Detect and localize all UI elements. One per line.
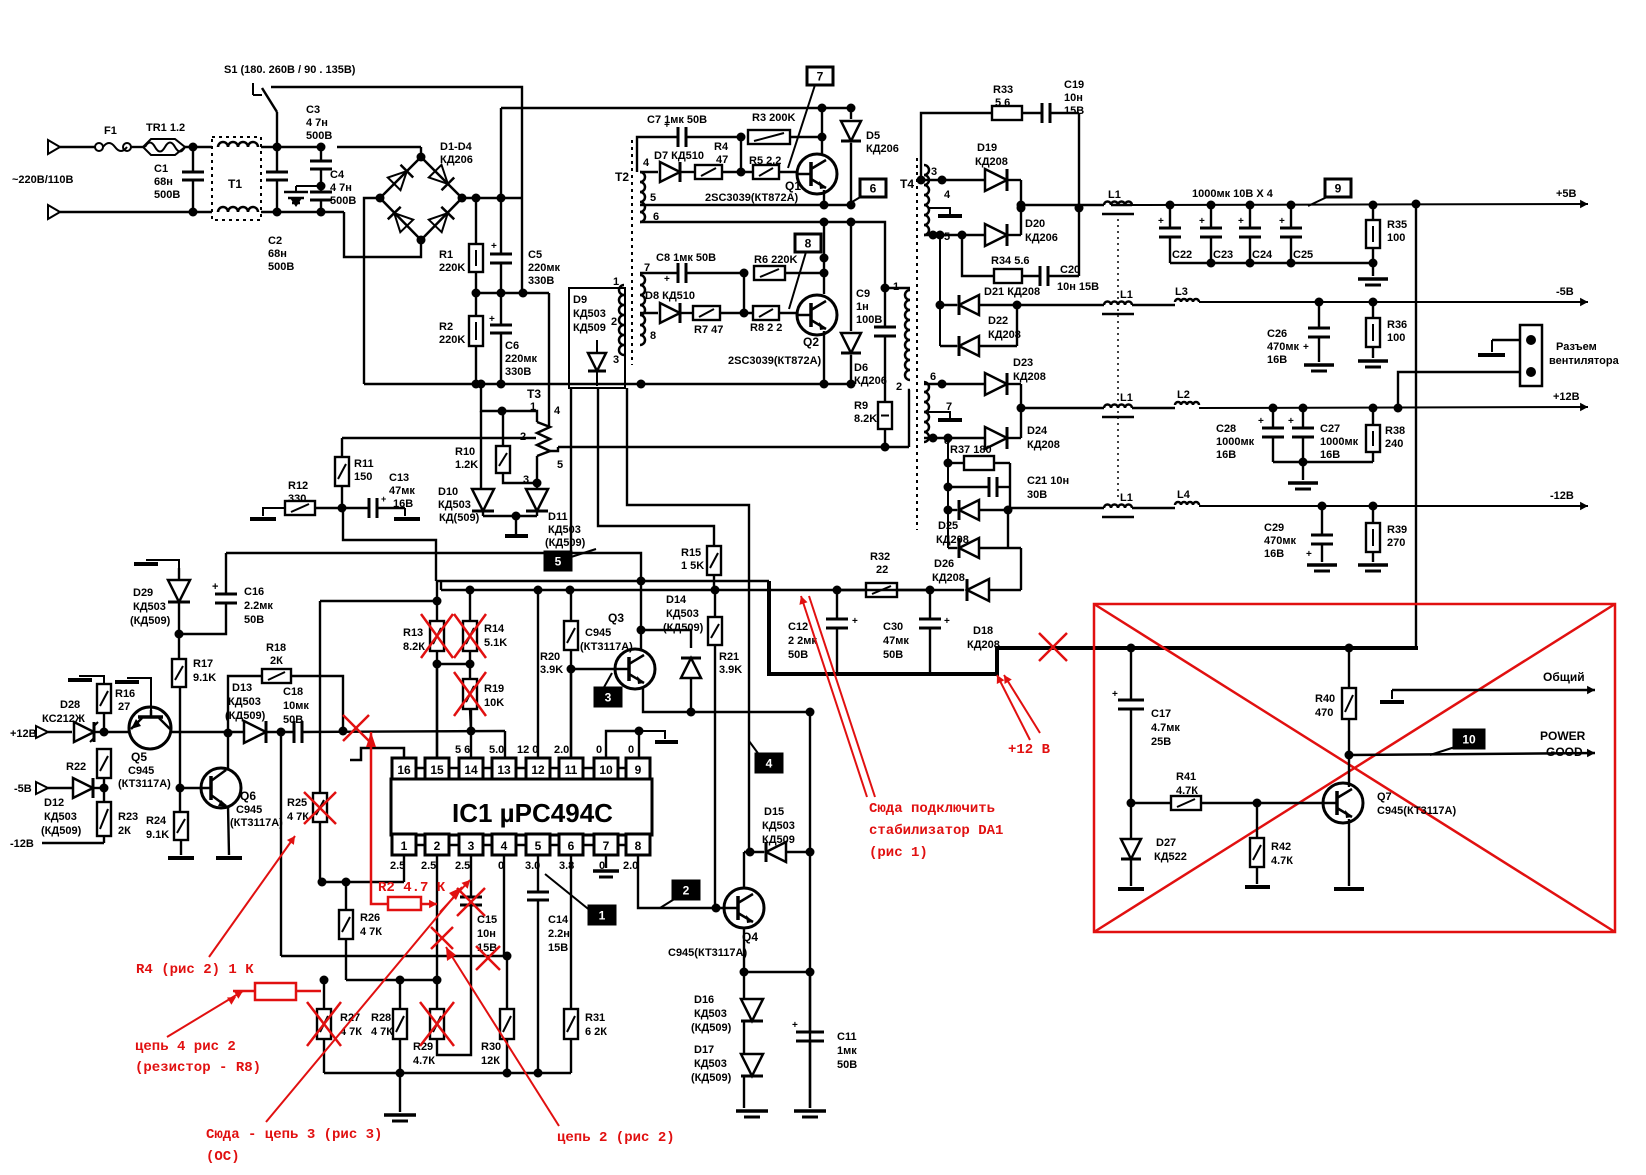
resistor R19 10K (crossed out) (469, 664, 471, 679)
resistor R1 220K (475, 198, 477, 244)
svg-text:Q3: Q3 (608, 611, 624, 625)
svg-text:C945: C945 (585, 627, 611, 639)
wire negative rail (364, 383, 852, 385)
svg-text:(КТ3117А): (КТ3117А) (230, 817, 283, 829)
wire (1199, 301, 1588, 303)
svg-text:9.1K: 9.1K (193, 672, 216, 684)
resistor R41 4.7K (1131, 802, 1171, 804)
svg-text:(КД509): (КД509) (225, 710, 266, 722)
wire T3 pin2 line (342, 437, 536, 439)
svg-text:(КД509): (КД509) (691, 1022, 732, 1034)
wire Q3 emitter rail (643, 687, 810, 712)
svg-text:R9: R9 (854, 400, 868, 412)
transistor Q2 2SC3039(KT872A) (797, 295, 837, 335)
wire callout 10 pointer (1430, 747, 1455, 755)
svg-text:R42: R42 (1271, 841, 1291, 853)
wire bridge right output (462, 197, 522, 199)
svg-text:+12 В: +12 В (1008, 742, 1051, 758)
svg-text:T1: T1 (228, 177, 242, 191)
svg-text:16В: 16В (1320, 449, 1340, 461)
svg-text:8.2K: 8.2K (854, 413, 877, 425)
svg-text:4 7н: 4 7н (330, 182, 352, 194)
ground (1302, 462, 1304, 480)
wire cap common (1170, 262, 1373, 264)
capacitor C21 10n 30V (948, 486, 989, 488)
wire fan pin2 (1398, 372, 1520, 408)
wire Q7 emitter to ground (1348, 819, 1350, 886)
transistor Q4 C945(KT3117A) (724, 888, 764, 928)
wire (740, 137, 742, 172)
junction (740, 309, 749, 318)
svg-text:9.1K: 9.1K (146, 829, 169, 841)
svg-text:R41: R41 (1176, 771, 1196, 783)
junction (820, 380, 829, 389)
svg-text:+: + (489, 314, 495, 325)
wire bridge left to negative rail (364, 198, 380, 384)
wire D10 D11 common (483, 515, 537, 517)
choke L2 (1132, 407, 1175, 409)
junction (806, 848, 815, 857)
svg-text:R40: R40 (1315, 693, 1335, 705)
svg-text:9: 9 (1335, 182, 1342, 196)
svg-text:C23: C23 (1213, 249, 1233, 261)
diode D15 KD503 KD509 (766, 842, 786, 862)
svg-text:D27: D27 (1156, 837, 1176, 849)
svg-text:30В: 30В (1027, 489, 1047, 501)
svg-text:1: 1 (613, 276, 619, 288)
svg-text:D23: D23 (1013, 357, 1033, 369)
svg-text:(КТ3117А): (КТ3117А) (580, 641, 633, 653)
svg-text:КД206: КД206 (440, 154, 473, 166)
svg-text:10: 10 (599, 763, 613, 777)
ground (1245, 885, 1270, 889)
svg-text:5: 5 (535, 839, 542, 853)
wire rect +5 vertical (1020, 180, 1022, 235)
wire pin7 ground (605, 855, 607, 868)
svg-text:КД206: КД206 (854, 375, 887, 387)
svg-text:R23: R23 (118, 811, 138, 823)
wire (131, 146, 145, 148)
junction (818, 104, 827, 113)
svg-text:R28: R28 (371, 1012, 391, 1024)
svg-text:Q5: Q5 (131, 750, 147, 764)
svg-text:C4: C4 (330, 169, 345, 181)
svg-text:Q6: Q6 (240, 789, 256, 803)
transistor Q5 C945 (KT3117A) (129, 707, 171, 749)
resistor R21 3.9K (714, 590, 716, 617)
svg-text:C16: C16 (244, 586, 264, 598)
wire T2 pin6 line (640, 222, 885, 288)
wire D13 line (170, 731, 243, 733)
svg-text:(КД509): (КД509) (663, 622, 704, 634)
step tap (404, 508, 406, 516)
svg-text:КД503: КД503 (666, 608, 699, 620)
resistor R13 8.2K (crossed out) (436, 581, 438, 621)
junction (740, 968, 749, 977)
ground (216, 856, 242, 860)
svg-text:C26: C26 (1267, 328, 1287, 340)
IC1 pin 1 (392, 834, 416, 855)
svg-text:R14: R14 (484, 623, 505, 635)
fuse F1 (95, 143, 103, 151)
svg-text:+: + (1199, 216, 1205, 227)
junction (1075, 204, 1084, 213)
svg-text:вентилятора: вентилятора (1549, 355, 1620, 367)
junction (100, 728, 109, 737)
junction (175, 630, 184, 639)
IC1 pin 10 (594, 758, 618, 779)
svg-text:C27: C27 (1320, 423, 1340, 435)
wire Q4 emitter (743, 929, 745, 972)
ground (1304, 363, 1334, 367)
wire (60, 146, 96, 148)
capacitor C18 10uF 50V (293, 721, 296, 743)
junction (503, 952, 512, 961)
junction (820, 254, 829, 263)
resistor R27 4.7K (crossed out) (323, 980, 325, 1009)
-12V rail (1008, 507, 1104, 509)
svg-text:10н: 10н (1064, 92, 1083, 104)
svg-text:2.2мк: 2.2мк (244, 600, 273, 612)
svg-text:D7 КД510: D7 КД510 (654, 150, 704, 162)
wire D9 to R15 elbow (598, 388, 714, 546)
wire callout 1 pointer (545, 874, 592, 912)
svg-text:L1: L1 (1108, 189, 1121, 201)
wire T3 pin4 feed (548, 293, 550, 426)
svg-text:+: + (1306, 549, 1312, 560)
svg-text:L1: L1 (1120, 492, 1133, 504)
resistor R12 330 (285, 501, 315, 515)
svg-text:1: 1 (599, 909, 606, 923)
resistor R23 2K (97, 802, 111, 836)
svg-text:6: 6 (568, 839, 575, 853)
junction (472, 289, 481, 298)
svg-text:-12В: -12В (1550, 490, 1574, 502)
capacitor C3 4.7n 500V (317, 143, 326, 152)
svg-text:КД208: КД208 (1027, 439, 1060, 451)
svg-text:+: + (1158, 216, 1164, 227)
svg-text:C28: C28 (1216, 423, 1236, 435)
svg-text:220K: 220K (439, 334, 465, 346)
junction (339, 727, 348, 736)
svg-text:T4: T4 (900, 177, 914, 191)
svg-text:C945: C945 (236, 804, 262, 816)
junction (567, 665, 576, 674)
wire rail upper (436, 580, 769, 582)
wire rail 980 (346, 979, 440, 981)
svg-text:22: 22 (876, 564, 888, 576)
svg-text:47: 47 (716, 154, 728, 166)
svg-text:C19: C19 (1064, 79, 1084, 91)
svg-text:-5В: -5В (1556, 286, 1574, 298)
ground (593, 869, 619, 873)
svg-text:2К: 2К (118, 825, 131, 837)
svg-text:16В: 16В (393, 498, 413, 510)
junction (929, 434, 938, 443)
svg-text:2: 2 (896, 381, 902, 393)
svg-text:-5В: -5В (14, 783, 32, 795)
diode D10 KD503 KD(509) (480, 411, 482, 489)
svg-text:500В: 500В (154, 189, 180, 201)
junction (820, 269, 829, 278)
junction (1127, 644, 1136, 653)
junction (534, 586, 543, 595)
svg-text:КД208: КД208 (975, 156, 1008, 168)
svg-text:3.9K: 3.9K (540, 664, 563, 676)
svg-text:2.0: 2.0 (554, 744, 569, 756)
choke L3 (1132, 304, 1175, 306)
svg-text:220K: 220K (439, 262, 465, 274)
svg-text:470мк: 470мк (1267, 341, 1299, 353)
svg-text:4 7К: 4 7К (371, 1026, 393, 1038)
wire rail link (440, 581, 442, 590)
svg-text:-12В: -12В (10, 838, 34, 850)
svg-text:R18: R18 (266, 642, 286, 654)
capacitor C4 4.7n 500V (317, 182, 326, 191)
svg-text:4.7К: 4.7К (413, 1055, 435, 1067)
junction (820, 218, 829, 227)
svg-text:Q2: Q2 (803, 335, 819, 349)
svg-text:R2 4.7 К: R2 4.7 К (378, 880, 446, 896)
-5V input (36, 782, 48, 794)
capacitor C15 10n 15V (crossed) (460, 896, 482, 899)
wire pin8 down to Q4 base (638, 855, 723, 908)
snubber R34 5.6 (962, 235, 994, 276)
junction (740, 269, 749, 278)
diode D12 KD503 (KD509) (73, 778, 93, 798)
POWER GOOD output (1349, 753, 1595, 755)
svg-text:+: + (381, 494, 386, 504)
IC1 uPC494C body (391, 779, 652, 835)
svg-text:L1: L1 (1120, 392, 1133, 404)
capacitor C6 220uF 330V (500, 293, 502, 325)
svg-text:16В: 16В (1264, 548, 1284, 560)
step tap above D29 (146, 560, 179, 568)
svg-text:R12: R12 (288, 480, 308, 492)
capacitor C12 2.2uF 50V (836, 590, 838, 619)
Common output (1392, 689, 1595, 692)
svg-text:C18: C18 (283, 686, 303, 698)
svg-text:R24: R24 (146, 815, 167, 827)
diode D7 KD510 (640, 171, 658, 173)
resistor R8 2.2 (753, 306, 779, 320)
wire pin2 down (436, 855, 438, 980)
wire T3 pin1 tap (481, 384, 537, 422)
svg-text:100В: 100В (856, 314, 882, 326)
svg-text:+: + (212, 581, 218, 593)
wire Q3 collector to D14 (641, 630, 691, 648)
transformer T2 core (631, 140, 633, 365)
wire callout 5 pointer (571, 549, 596, 557)
svg-text:L2: L2 (1177, 389, 1190, 401)
svg-text:R25: R25 (287, 797, 307, 809)
T2 winding pins 1-2-3 (619, 285, 624, 355)
red X near pin4 (476, 946, 500, 970)
wire fan pin1 (1492, 339, 1520, 341)
diode D26 KD208 (947, 510, 949, 548)
svg-text:+: + (1279, 216, 1285, 227)
transistor Q1 2SC3039(KT872A) (797, 154, 837, 194)
IC1 pin 7 (594, 834, 618, 855)
svg-text:R30: R30 (481, 1041, 501, 1053)
svg-text:500В: 500В (330, 195, 356, 207)
svg-text:100: 100 (1387, 332, 1405, 344)
diode D22 KD208 (939, 305, 941, 346)
svg-text:12: 12 (531, 763, 545, 777)
net 8 callout box (795, 234, 821, 252)
IC1 pin 12 (526, 758, 550, 779)
ground (1118, 887, 1144, 891)
svg-text:+: + (1112, 689, 1118, 700)
svg-text:10: 10 (1462, 733, 1476, 747)
svg-text:КД208: КД208 (932, 572, 965, 584)
red X marks misc (431, 927, 453, 949)
svg-text:4 7К: 4 7К (360, 926, 382, 938)
svg-text:КД503: КД503 (694, 1008, 727, 1020)
wire right branch (809, 712, 811, 1108)
svg-text:D11: D11 (548, 511, 568, 523)
svg-text:5 6: 5 6 (455, 744, 470, 756)
capacitor C27 1000uF 16V (1299, 404, 1308, 413)
svg-text:4: 4 (643, 157, 650, 169)
wire (909, 390, 910, 447)
wire pin3 line (924, 179, 984, 181)
capacitor C2 68n 500V (276, 147, 278, 172)
diode D27 KD522 (1130, 803, 1132, 838)
svg-text:L3: L3 (1175, 286, 1188, 298)
T4 secondary winding pins 6-7-8 (924, 382, 929, 442)
wire to pin13 (504, 731, 506, 758)
svg-text:50В: 50В (883, 649, 903, 661)
wire S1 to C5 node (271, 87, 522, 293)
svg-text:D28: D28 (60, 699, 80, 711)
resistor R16 27 (103, 713, 105, 732)
svg-text:F1: F1 (104, 125, 117, 137)
svg-text:(ОС): (ОС) (206, 1149, 240, 1165)
svg-text:C5: C5 (528, 249, 542, 261)
svg-text:2SC3039(КТ872А): 2SC3039(КТ872А) (705, 192, 799, 204)
center tap pin7 (928, 412, 950, 420)
junction (637, 626, 646, 635)
wire (570, 669, 572, 757)
junction (433, 597, 442, 606)
wire feedback rail 956 (281, 955, 507, 957)
svg-text:12К: 12К (481, 1055, 500, 1067)
ground (1372, 263, 1374, 276)
red X on +12 feed (1039, 633, 1067, 661)
diode D21 KD208 (939, 235, 941, 305)
junction (273, 143, 282, 152)
resistor R35 100 (1369, 201, 1378, 210)
wire Q6 emitter to ground (228, 806, 229, 855)
wire pin6 line (924, 383, 984, 385)
junction (881, 443, 890, 452)
svg-text:1000мк: 1000мк (1216, 436, 1255, 448)
svg-text:2К: 2К (270, 655, 283, 667)
resistor R17 9.1K (178, 634, 180, 659)
transistor Q7 C945(KT3117A) (1323, 783, 1363, 823)
diode D29 KD503 (KD509) (178, 568, 180, 580)
red arrow circuit 4 (167, 991, 243, 1037)
diode D13 KD503 (KD509) (244, 721, 266, 743)
resistor R18 2K (228, 676, 262, 733)
crossed-out stabilizer region box (1094, 604, 1615, 932)
svg-text:9: 9 (635, 763, 642, 777)
svg-text:Q1: Q1 (785, 179, 801, 193)
wire (261, 146, 322, 148)
capacitor C29 470uF 16V (1318, 502, 1327, 511)
svg-text:стабилизатор DA1: стабилизатор DA1 (869, 823, 1003, 839)
diode D19 KD208 (985, 169, 1007, 191)
choke L1b (1104, 302, 1132, 306)
svg-text:D13: D13 (232, 682, 252, 694)
junction (929, 231, 938, 240)
svg-text:3: 3 (605, 691, 612, 705)
svg-text:C22: C22 (1172, 249, 1192, 261)
net 1 callout box (589, 906, 615, 924)
net 7 callout box (807, 67, 833, 85)
svg-text:4 7н: 4 7н (306, 117, 328, 129)
svg-text:C20: C20 (1060, 264, 1080, 276)
resistor R25 4.7K (crossed out, in line) (313, 793, 327, 822)
wire T4 pin1 (885, 287, 910, 289)
svg-text:8.2К: 8.2К (403, 641, 425, 653)
svg-text:L1: L1 (1120, 289, 1133, 301)
resistor R5 2.2 (753, 165, 779, 179)
svg-text:1мк: 1мк (837, 1045, 857, 1057)
wire bridge top to AC (420, 147, 422, 157)
wire pin4 down (503, 855, 505, 956)
svg-text:R3 200K: R3 200K (752, 112, 795, 124)
svg-text:R4: R4 (714, 141, 729, 153)
resistor R22 (97, 749, 111, 778)
svg-text:+: + (792, 1020, 798, 1031)
svg-text:4: 4 (944, 189, 951, 201)
IC1 pin 8 (626, 834, 650, 855)
wire callout 4 pointer (749, 741, 760, 756)
junction (687, 708, 696, 717)
wire to Q3 collector net (571, 553, 641, 581)
svg-text:КД503: КД503 (573, 308, 606, 320)
capacitor C5 220uF 330V (500, 108, 502, 254)
wire divider rail (320, 600, 437, 602)
svg-text:6: 6 (870, 182, 877, 196)
svg-text:КД206: КД206 (866, 143, 899, 155)
svg-text:1 5K: 1 5K (681, 560, 704, 572)
svg-text:КД(509): КД(509) (439, 512, 480, 524)
svg-text:15: 15 (430, 763, 444, 777)
wire (436, 664, 438, 757)
svg-text:7: 7 (817, 70, 824, 84)
center tap pin4 (928, 208, 950, 216)
svg-text:68н: 68н (268, 248, 287, 260)
svg-text:R1: R1 (439, 249, 453, 261)
resistor R2 220K (475, 293, 477, 316)
fan connector (1520, 325, 1542, 386)
svg-text:R10: R10 (455, 446, 475, 458)
junction (433, 660, 442, 669)
svg-text:C15: C15 (477, 914, 497, 926)
diode D8 KD510 (640, 312, 658, 314)
svg-text:C8 1мк 50В: C8 1мк 50В (656, 252, 716, 264)
junction (1017, 404, 1026, 413)
svg-text:10н: 10н (477, 928, 496, 940)
junction (338, 504, 347, 513)
hook tap pin16 (350, 748, 404, 760)
diode D9 KD503 KD509 module (569, 288, 625, 388)
svg-text:2: 2 (434, 839, 441, 853)
junction (818, 133, 827, 142)
